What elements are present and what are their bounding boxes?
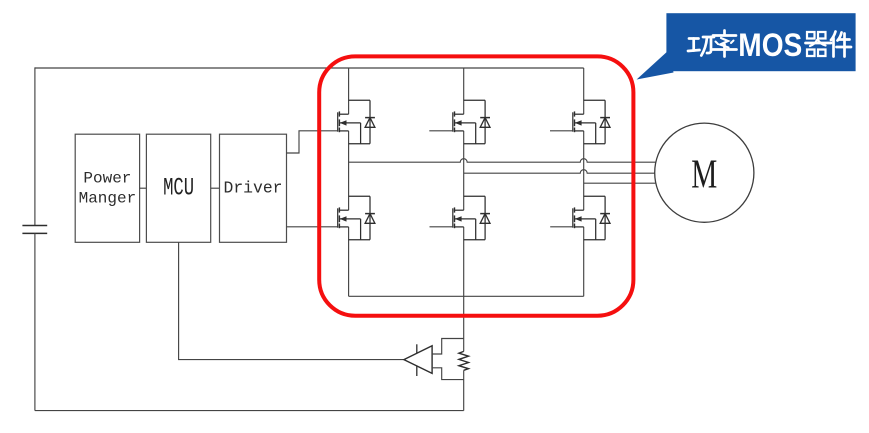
diode D4 (body diode)	[349, 196, 375, 239]
diode D3 (body diode)	[584, 100, 610, 143]
diode D5 (body diode)	[464, 196, 490, 239]
wire: shunt to bottom rail	[463, 370, 465, 410]
transistor Q1	[337, 111, 370, 143]
transistor Q5	[430, 207, 486, 239]
glyph 器	[807, 32, 815, 39]
wire: phase C leg (Q3 drain / Q3 source to Q6 drain / Q6 source to bus)	[583, 68, 585, 296]
svg-text:Manger: Manger	[79, 189, 137, 207]
capacitor C1	[22, 226, 47, 234]
wire: U1 input- to shunt bottom	[432, 368, 464, 380]
block: MCU	[146, 134, 210, 242]
wire: left supply rail upper	[34, 67, 36, 225]
svg-text:MOS: MOS	[738, 27, 802, 63]
transistor Q6	[550, 207, 605, 239]
resistor R1 (current shunt)	[459, 351, 469, 370]
svg-text:Driver: Driver	[224, 179, 283, 198]
glyph 功	[689, 37, 699, 40]
wire: Driver low-side gate output	[287, 226, 338, 228]
transistor Q2	[429, 111, 485, 143]
callout box 功率MOS器件	[666, 13, 855, 71]
wire: bottom return rail	[35, 410, 464, 412]
wire: bridge source bus	[349, 295, 584, 297]
wire: U1 input+ to shunt top	[432, 339, 464, 355]
wire: top DC bus	[35, 67, 584, 69]
transistor Q3	[550, 111, 605, 143]
svg-text:M: M	[691, 150, 717, 196]
motor M	[655, 123, 754, 222]
wire: Driver high-side gate output	[287, 131, 338, 153]
diode D1 (body diode)	[349, 100, 375, 143]
wire: left supply rail lower	[34, 233, 36, 410]
wire: phase A leg (Q1 drain / Q1 source to Q4 drain / Q4 source to bus)	[348, 68, 350, 296]
wire: phase C to motor	[584, 182, 656, 184]
wire: Power Manger to MCU	[140, 187, 147, 189]
wire: phase B to motor (with crossover hop)	[464, 170, 655, 174]
diode D2 (body diode)	[464, 100, 490, 143]
highlight: power MOS region (red rounded rectangle)	[319, 56, 633, 315]
wire: MCU to Driver	[211, 187, 220, 189]
wire: phase A to motor (with crossover hops)	[349, 159, 656, 163]
glyph 件	[831, 32, 836, 41]
callout pointer	[637, 50, 674, 80]
block: Power Manger	[75, 134, 139, 242]
wire: bus to shunt resistor	[463, 296, 465, 351]
wire: MCU feedback line	[179, 242, 404, 359]
svg-text:Power: Power	[83, 170, 131, 188]
svg-text:MCU: MCU	[163, 173, 194, 202]
wire: phase B leg (Q2 drain / Q2 source to Q5 drain / Q5 source to bus)	[463, 68, 465, 296]
block: Driver	[220, 134, 287, 242]
transistor Q4	[337, 207, 370, 239]
diode D6 (body diode)	[584, 196, 610, 239]
glyph 率	[723, 31, 726, 35]
op-amp U1 (current sense comparator)	[404, 344, 432, 376]
